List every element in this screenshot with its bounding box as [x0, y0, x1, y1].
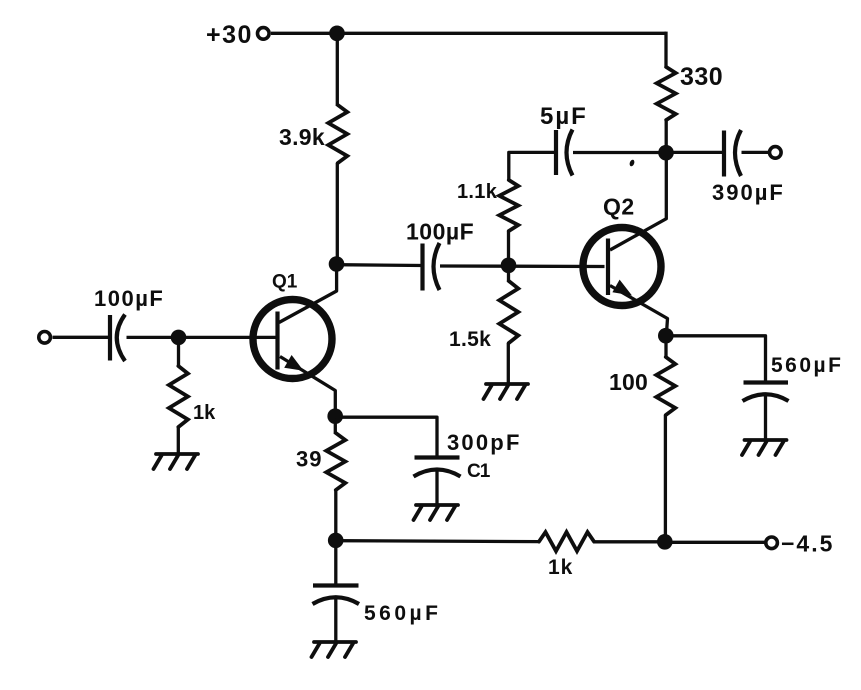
wire divider node to R1.1k — [507, 231, 510, 265]
resistor R3 330 — [657, 67, 676, 120]
svg-text:5µF: 5µF — [540, 103, 588, 130]
svg-text:+30: +30 — [206, 21, 253, 49]
wire input terminal to 100uF — [53, 336, 110, 339]
svg-text:560µF: 560µF — [771, 354, 843, 377]
node input bias junction — [171, 330, 187, 346]
node Q2 emitter junction — [658, 328, 674, 344]
wire collector node to 100uF cap — [337, 263, 424, 267]
terminal input — [39, 332, 51, 344]
Q2 body circle — [583, 228, 661, 306]
Q2 base bar — [606, 239, 610, 296]
wire R3.9k to Q1 collector node — [336, 163, 339, 264]
Q1 collector lead — [279, 264, 337, 323]
svg-text:3.9k: 3.9k — [279, 124, 325, 150]
Q1 base bar — [275, 312, 279, 370]
wire node to -4.5 terminal — [665, 541, 766, 544]
wire R1.5k to ground — [507, 343, 510, 384]
transistor Q2 — [583, 153, 668, 336]
wire bottom node G to R1k — [336, 539, 539, 543]
wire emitter node to C1 300pF — [335, 417, 437, 457]
ink speck — [629, 159, 635, 167]
svg-text:C1: C1 — [467, 461, 491, 482]
capacitor 5uF left plate — [554, 130, 558, 175]
svg-text:−4.5: −4.5 — [781, 531, 834, 557]
resistor R4 100 — [656, 357, 675, 415]
wire divider node to R1.5k — [507, 266, 510, 282]
resistor R6 39 — [326, 433, 345, 490]
svg-text:330: 330 — [680, 63, 723, 91]
wire 100uF cap to Q2 base — [440, 264, 605, 268]
wire Q1 emitter node to R39 — [334, 416, 337, 434]
wire 100uF to Q1 base — [127, 336, 277, 339]
wire R1k to node F — [594, 540, 665, 543]
resistor R2 1.1k — [499, 180, 518, 231]
wire R39 to node G — [334, 490, 337, 540]
svg-text:1.5k: 1.5k — [449, 328, 491, 351]
wire bottom node to 560uF bottom — [334, 541, 337, 586]
capacitor C1 300pF bottom plate — [414, 470, 461, 477]
ground under C1 — [414, 505, 459, 520]
capacitor 560uF right top plate — [744, 380, 789, 384]
wire collector node to 390uF — [666, 151, 724, 154]
svg-text:300pF: 300pF — [447, 430, 522, 455]
svg-text:100µF: 100µF — [406, 219, 474, 245]
wire top rail corner down to R330 — [664, 32, 667, 68]
wire C1 to ground — [435, 470, 438, 505]
Q2 emitter arrow — [612, 280, 632, 296]
capacitor interstage 100uF left plate — [420, 244, 424, 291]
capacitor input 100uF left plate — [108, 315, 112, 361]
capacitor 390uF left plate — [722, 131, 726, 177]
capacitor 5uF right plate — [567, 130, 573, 176]
ground under 560uF right — [742, 440, 787, 455]
wire top supply rail — [271, 32, 666, 35]
svg-text:1k: 1k — [548, 556, 573, 579]
terminal +30 — [258, 28, 270, 40]
wire R1k input to ground — [177, 427, 180, 454]
node divider junction — [501, 258, 517, 274]
ground input — [154, 454, 199, 469]
wire 5uF to Q2 collector node — [573, 151, 666, 154]
resistor R5 1k horizontal — [539, 532, 594, 551]
svg-text:100: 100 — [609, 369, 648, 395]
node bottom rail left — [328, 533, 344, 549]
wire bias node to R1k input — [177, 338, 180, 367]
terminal -4.5 — [766, 537, 778, 549]
resistor R1 3.9k — [328, 105, 347, 163]
transistor Q1 — [253, 264, 337, 416]
svg-text:560µF: 560µF — [364, 602, 441, 625]
capacitor 390uF right plate — [735, 130, 741, 176]
capacitor 560uF bottom top plate — [313, 583, 359, 587]
svg-text:390µF: 390µF — [712, 180, 785, 205]
Q1 body circle — [253, 300, 332, 379]
node Q1 collector junction — [329, 256, 345, 272]
resistor R8 1.5k — [499, 281, 518, 343]
capacitor input 100uF right plate — [117, 315, 125, 362]
svg-text:Q2: Q2 — [603, 194, 635, 220]
node top rail junction — [329, 26, 345, 42]
wire R330 to collector node — [665, 120, 668, 153]
wire junction to R3.9k — [336, 33, 339, 106]
node bottom rail right — [657, 534, 673, 550]
Q2 collector lead — [610, 153, 666, 250]
node Q1 emitter junction — [327, 408, 343, 424]
svg-text:39: 39 — [296, 447, 322, 472]
capacitor C1 300pF top plate — [415, 455, 460, 459]
wire R100 to bottom rail node — [664, 415, 667, 542]
Q2 emitter lead — [610, 286, 668, 337]
wire 560uF to ground — [764, 395, 767, 441]
svg-text:1k: 1k — [193, 402, 216, 424]
resistor R7 1k input — [169, 366, 188, 427]
wire 390uF to output terminal — [742, 151, 770, 154]
terminal output 390uF — [770, 147, 782, 159]
wire 560uF bottom to ground — [334, 598, 337, 643]
wire emitter node to R100 — [664, 336, 667, 358]
svg-text:Q1: Q1 — [272, 272, 298, 293]
ground under 560uF bottom — [312, 642, 357, 657]
Q1 emitter lead — [280, 357, 335, 417]
wire R1.1k to 5uF branch — [509, 152, 556, 181]
Q1 emitter arrow — [284, 355, 303, 371]
capacitor interstage 100uF right plate — [434, 243, 440, 290]
capacitor 560uF bottom bottom plate — [313, 597, 360, 604]
ground under 1.5k — [484, 384, 529, 399]
svg-text:1.1k: 1.1k — [457, 181, 498, 203]
wire emitter node to 560uF — [666, 336, 766, 382]
node Q2 collector junction — [658, 145, 674, 161]
capacitor 560uF right bottom plate — [743, 394, 789, 401]
svg-text:100µF: 100µF — [94, 286, 164, 311]
